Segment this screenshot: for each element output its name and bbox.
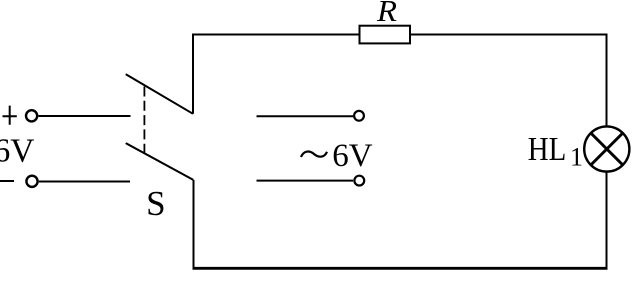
- lamp HL1 circle: [584, 126, 629, 171]
- terminal circle middle top: [354, 111, 364, 121]
- wire: top-left terminal lead: [38, 115, 130, 117]
- terminal circle bottom-left: [26, 176, 37, 187]
- wire: middle top terminal lead: [257, 115, 354, 117]
- svg-text:6V: 6V: [0, 133, 34, 170]
- plus sign: [3, 106, 17, 125]
- terminal circle top-left: [26, 110, 37, 121]
- wire: bottom-left terminal lead: [39, 181, 130, 183]
- tilde (AC symbol): [301, 152, 327, 157]
- svg-text:6V: 6V: [332, 138, 373, 174]
- wire: bottom rail: [193, 267, 608, 270]
- svg-text:HL: HL: [528, 131, 567, 168]
- svg-text:R: R: [376, 0, 397, 28]
- wire: top rail right segment + right vertical down to lamp: [410, 35, 607, 126]
- switch S bottom blade: [126, 143, 194, 180]
- switch S top blade: [126, 74, 193, 114]
- svg-text:S: S: [146, 184, 165, 223]
- resistor R: [360, 26, 411, 44]
- wire: left vertical + top rail left segment: [193, 35, 360, 114]
- lamp HL1 cross: [591, 133, 623, 165]
- wire: bottom-left vertical (switch to bottom rail): [193, 180, 195, 268]
- wire: lamp bottom to bottom rail: [606, 172, 608, 268]
- svg-text:1: 1: [570, 143, 583, 172]
- terminal circle middle bottom: [354, 176, 364, 186]
- minus sign: [0, 180, 14, 182]
- switch S dashed linkage: [143, 87, 145, 153]
- wire: middle bottom terminal lead: [257, 180, 354, 182]
